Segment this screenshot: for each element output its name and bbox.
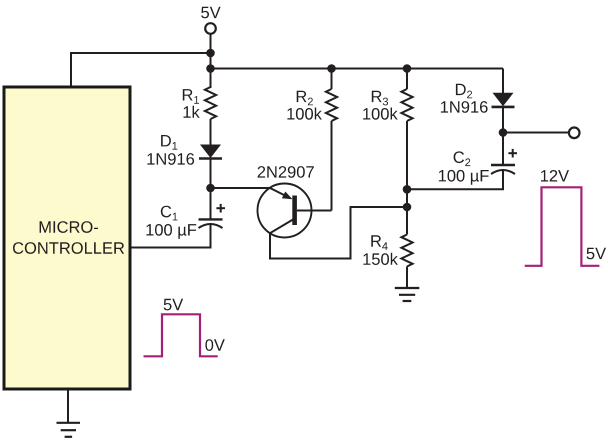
resistor R4 [401,235,412,267]
wire D1 to C1 [210,159,212,221]
capacitor C2 [491,165,515,174]
node R3 junction dot [403,64,412,73]
wire bus to D2 [502,69,504,95]
label MICRO-CONTROLLER [13,221,124,254]
resistor R1 [205,87,216,119]
wire D2 to C2 [502,108,504,167]
node A junction dot [206,49,215,58]
label C1 [161,206,178,221]
label 12V output pulse [541,170,569,182]
node B junction dot [206,64,215,73]
C1 plus sign [216,204,225,213]
label 100k R2 [287,108,322,120]
transistor Q1 2N2907 [258,184,332,238]
label 5V input pulse [164,299,183,311]
microcontroller box [4,87,130,389]
wire output node to terminal [503,132,568,134]
label D2 [454,151,471,166]
capacitor C1 [199,219,223,228]
label 100k R3 [363,108,398,120]
label 5V supply [201,7,220,19]
label R3 [372,91,388,106]
ground microcontroller [57,423,81,437]
wire bus to R3 [406,69,408,90]
label 100 uF C2 [363,253,398,265]
node C2-return junction dot [403,185,412,194]
wire R1 to D1 [210,119,212,145]
label R1 [183,89,199,104]
node R3/R4 junction dot [403,203,412,212]
5V supply terminal [205,23,216,34]
diode D2 [492,93,515,107]
wire R4 to ground [406,267,408,289]
node D1/C1 junction dot [206,184,215,193]
label 150k R4 [441,101,488,113]
wire R3 to R4 node [406,121,408,235]
label R2 [297,91,313,106]
output terminal [569,128,580,139]
diode D1 [199,145,222,159]
wire C1 to microcontroller [130,224,211,248]
wire R2 to transistor base [331,121,333,211]
waveform output pulse [525,187,600,265]
wire bus to R2 [331,69,333,90]
label 1N916 D1 [147,153,194,165]
node output junction dot [499,128,508,137]
wire 5V terminal to node A [210,33,212,88]
wire node A to microcontroller top [71,53,211,87]
C2 plus sign [508,149,517,158]
resistor R2 [326,89,337,121]
label C2 [371,235,387,250]
wire node D1/C1 to transistor emitter [211,187,271,189]
label 5V output pulse [587,248,606,260]
ground R4 [395,288,420,301]
wire top supply bus [211,68,504,70]
label 0V input pulse [205,339,224,351]
wire C2 bottom to R3/R4 node [407,170,503,190]
label 1N916 D2 [439,170,489,185]
wire microcontroller to ground [67,390,69,423]
label 100 uF C1 [146,224,196,239]
node R2 junction dot [327,64,336,73]
label 1k [184,106,200,118]
resistor R3 [401,89,412,121]
label D1 [161,135,177,150]
label 2N2907 [258,166,314,178]
waveform input pulse [144,314,218,356]
label R4 [456,84,472,99]
wire collector to R4 node [270,207,407,259]
